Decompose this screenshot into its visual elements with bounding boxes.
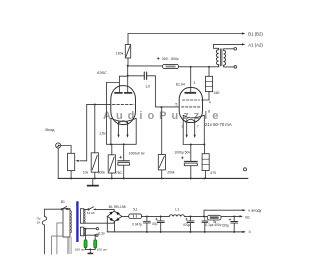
tube V2 heater	[186, 119, 196, 122]
svg-text:470μ: 470μ	[183, 223, 191, 227]
svg-text:100 om: 100 om	[75, 248, 86, 252]
svg-text:А1 (А2): А1 (А2)	[248, 43, 263, 48]
resistor R1 160k	[127, 34, 129, 45]
svg-text:8: 8	[208, 109, 210, 113]
resistor 100 om left (humdinger)	[85, 228, 87, 230]
core	[221, 49, 222, 66]
svg-text:1000uF 6v: 1000uF 6v	[129, 152, 145, 156]
tube V2 cathode	[183, 115, 204, 118]
inductor L1	[169, 215, 184, 217]
svg-text:5: 5	[175, 102, 177, 106]
svg-text:750: 750	[116, 171, 122, 175]
tube V2 control grid dashed	[182, 106, 201, 108]
capacitor 1000uF 6v	[123, 144, 125, 160]
capacitor 0.047u	[146, 215, 148, 217]
tube V1 cathode box	[107, 119, 137, 145]
svg-text:4: 4	[209, 100, 211, 104]
svg-text:В1 (В2): В1 (В2)	[248, 32, 263, 37]
diode bottom-left	[109, 218, 112, 221]
svg-text:6,3v: 6,3v	[98, 231, 105, 235]
wire plate node to R2	[128, 65, 163, 67]
wire anode line	[191, 66, 209, 68]
capacitor 470u	[190, 215, 192, 217]
diode top-left	[109, 212, 112, 215]
ground rail	[58, 177, 248, 179]
tube V1 heater leads with arrows	[118, 122, 120, 136]
primary bottom lead	[218, 65, 220, 67]
svg-text:В1 RB-156: В1 RB-156	[109, 205, 126, 209]
capacitor 1000u 50v cathode V2	[190, 145, 192, 161]
wire k anodu output	[204, 209, 244, 211]
svg-text:300к: 300к	[98, 171, 106, 175]
secondary HV winding	[80, 209, 83, 224]
humdinger center ground	[86, 248, 96, 250]
secondary HV bottom lead	[84, 222, 115, 223]
resistor 300k grid leak V1	[94, 104, 96, 152]
tube V2 envelope	[179, 88, 202, 123]
primary bottom taps	[67, 237, 71, 254]
secondary top lead + terminal	[224, 49, 234, 51]
tube V2 heater leads pins 2,7	[186, 120, 188, 136]
svg-text:0.047μ: 0.047μ	[132, 223, 142, 227]
primary bottom lead	[52, 236, 63, 254]
tube V1 cathode	[111, 118, 136, 121]
svg-text:220μ: 220μ	[222, 223, 230, 227]
svg-text:47μ: 47μ	[152, 222, 158, 226]
svg-text:10к: 10к	[83, 171, 89, 175]
diode top-right	[117, 212, 120, 215]
svg-text:2А: 2А	[37, 220, 41, 224]
resistor 3k	[207, 215, 221, 220]
tube V1 screen wire	[107, 82, 120, 84]
power transformer core	[76, 201, 78, 242]
primary tap	[57, 223, 63, 254]
svg-text:AudioPuzzle: AudioPuzzle	[103, 110, 223, 122]
svg-text:21v 50-70 mA: 21v 50-70 mA	[205, 122, 232, 127]
input connector	[56, 143, 61, 148]
wire A1 line	[214, 43, 244, 45]
svg-text:6Э5С: 6Э5С	[97, 71, 107, 75]
resistor 150 screen	[208, 67, 210, 77]
svg-text:160к: 160к	[116, 51, 124, 55]
svg-text:150: 150	[214, 91, 220, 95]
resistor 100 om right (humdinger)	[94, 234, 96, 236]
tube V1 envelope	[111, 86, 136, 125]
svg-text:Вход: Вход	[45, 127, 55, 132]
fuse Pr 2A	[43, 209, 45, 216]
switch secondary	[84, 208, 88, 210]
tube V1 anode leads	[127, 66, 129, 92]
resistor R2 300-500k	[163, 64, 179, 68]
ground terminal circle	[244, 168, 247, 171]
svg-text:100 om: 100 om	[97, 248, 108, 252]
node below R1	[127, 65, 129, 67]
svg-text:3: 3	[193, 81, 195, 85]
svg-text:1000μ 50v: 1000μ 50v	[174, 151, 190, 155]
svg-text:1,5v: 1,5v	[99, 132, 106, 136]
wire input to pot	[61, 146, 71, 154]
wire B+ rail	[128, 33, 244, 35]
svg-text:3к: 3к	[213, 220, 217, 224]
capacitor 220u	[233, 216, 235, 221]
resistor 200k grid leak V2	[161, 107, 163, 154]
svg-text:В1: В1	[245, 216, 250, 220]
svg-text:к аноду: к аноду	[248, 209, 261, 213]
node 220u / V1 output	[233, 215, 235, 217]
svg-text:200k: 200k	[167, 171, 175, 175]
secondary winding	[224, 50, 226, 65]
bridge AC top lead	[113, 209, 115, 211]
resistor 470 cathode V2	[203, 145, 205, 154]
svg-text:7: 7	[197, 125, 199, 129]
secondary bottom lead + terminal	[224, 65, 234, 67]
svg-text:1,0: 1,0	[145, 85, 150, 89]
svg-text:470: 470	[210, 171, 216, 175]
svg-text:51 КЗ: 51 КЗ	[87, 211, 95, 215]
svg-text:EL34: EL34	[176, 83, 185, 87]
resistor 750 cathode V1	[111, 144, 113, 155]
primary winding	[216, 50, 218, 65]
svg-text:300 - 500к: 300 - 500к	[162, 57, 179, 61]
heater winding 6,3v	[80, 227, 83, 236]
capacitor 47u	[160, 215, 162, 217]
bridge DC minus lead	[114, 221, 116, 232]
tube V2 cathode box	[183, 115, 204, 144]
tube V2 anode bar	[185, 92, 195, 94]
fuse resistor 5,1	[122, 215, 129, 217]
svg-text:5,1: 5,1	[133, 208, 138, 212]
potentiometer 10k	[68, 153, 75, 170]
svg-text:0: 0	[249, 230, 251, 234]
capacitor 0.1u 400v	[204, 216, 206, 220]
primary top lead	[214, 44, 219, 49]
svg-text:L1: L1	[175, 207, 179, 211]
tube V1 anode bars	[115, 92, 122, 94]
PSU minus rail	[107, 231, 244, 233]
node to anode output	[203, 215, 205, 217]
tube V2 screen grid dashed	[183, 99, 200, 101]
diode bottom-right	[117, 218, 120, 221]
capacitor C1 1,0 coupling	[128, 75, 144, 77]
tube V1 grid (dashed)	[113, 103, 135, 105]
tube V2 anode lead pin 3	[190, 67, 192, 92]
tube V1 heater	[118, 121, 128, 124]
power transformer T1 primary	[63, 209, 70, 237]
chassis ground	[92, 178, 94, 184]
svg-text:В1: В1	[61, 200, 65, 204]
switch V1 primary	[44, 208, 61, 210]
